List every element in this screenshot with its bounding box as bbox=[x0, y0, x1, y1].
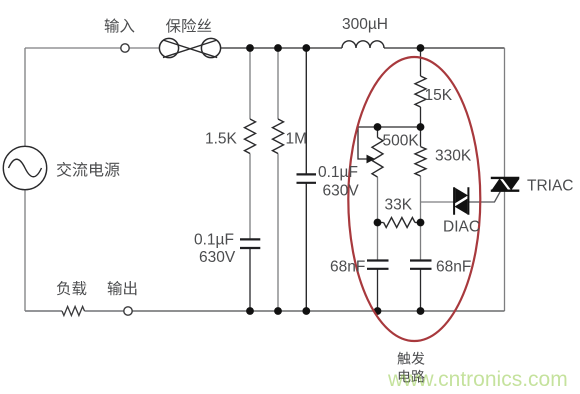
wire 15K to node bbox=[420, 107, 422, 147]
wire 330K down to 68nF bbox=[420, 176, 422, 260]
label 输入 bbox=[105, 18, 135, 32]
wire line B upper bbox=[277, 48, 279, 119]
junction dot bottom A bbox=[246, 307, 254, 315]
junction dot bottom E bbox=[417, 307, 425, 315]
DIAC D1 bbox=[454, 187, 468, 214]
label 触发 bbox=[397, 352, 424, 365]
potentiometer VR1 500K bbox=[372, 137, 383, 177]
wire line A lower bbox=[249, 248, 251, 311]
terminal 输入 bbox=[121, 44, 129, 52]
junction dot bottom C bbox=[302, 307, 310, 315]
label 电路 bbox=[399, 370, 425, 383]
junction dot top E bbox=[417, 44, 425, 52]
label 输出 bbox=[108, 281, 137, 295]
svg-text:www.cntronics.com: www.cntronics.com bbox=[387, 368, 568, 391]
wire line C upper bbox=[305, 48, 307, 174]
svg-text:500K: 500K bbox=[383, 133, 420, 150]
trigger circuit ellipse bbox=[348, 57, 480, 341]
wire top rail left segment bbox=[25, 47, 121, 49]
junction dot node D-127 bbox=[374, 123, 382, 131]
svg-text:68nF: 68nF bbox=[436, 259, 471, 276]
wire terminal to fuse bbox=[129, 47, 160, 49]
wire to DIAC bbox=[421, 201, 454, 203]
wire line B lower bbox=[277, 154, 279, 312]
resistor R4 330K bbox=[415, 147, 426, 176]
svg-text:68nF: 68nF bbox=[330, 259, 365, 276]
svg-text:630V: 630V bbox=[323, 183, 360, 200]
resistor R1 1.5K bbox=[245, 119, 256, 154]
junction dot top B bbox=[274, 44, 282, 52]
wire load to left corner bbox=[25, 310, 62, 312]
resistor R5 33K bbox=[384, 218, 415, 228]
wire line C lower bbox=[305, 183, 307, 311]
svg-text:630V: 630V bbox=[199, 249, 236, 266]
resistor R3 15K bbox=[415, 76, 426, 107]
capacitor C1 0.1uF 630V line A bbox=[240, 239, 260, 248]
svg-text:0.1µF: 0.1µF bbox=[194, 232, 234, 249]
svg-text:300µH: 300µH bbox=[342, 16, 388, 33]
resistor R2 1M bbox=[273, 119, 284, 154]
fuse F1 circles bbox=[159, 38, 178, 57]
AC source circle bbox=[3, 146, 46, 189]
wire line D pot to 68nF bbox=[377, 177, 379, 260]
svg-text:DIAC: DIAC bbox=[443, 219, 480, 236]
wire node row y127 bbox=[378, 126, 421, 128]
wire DIAC to TRIAC gate bbox=[469, 192, 501, 203]
wire line E top to 15K bbox=[420, 48, 422, 76]
wire right rail upper bbox=[504, 48, 506, 177]
junction dot node E-127 bbox=[417, 123, 425, 131]
capacitor C2 0.1uF 630V line C bbox=[297, 174, 317, 182]
resistor load 负载 bbox=[62, 307, 85, 316]
junction dot bottom B bbox=[274, 307, 282, 315]
wire left rail upper bbox=[24, 48, 26, 146]
junction dot top A bbox=[246, 44, 254, 52]
wire bottom rail right segment bbox=[132, 310, 505, 312]
wire output terminal to load bbox=[85, 310, 125, 312]
label 保险丝 bbox=[166, 18, 211, 32]
junction dot 33K left bbox=[374, 219, 382, 227]
svg-text:1M: 1M bbox=[286, 131, 308, 148]
wire inductor to top-right corner bbox=[384, 47, 505, 49]
node line A upper bbox=[249, 48, 251, 119]
label 负载 bbox=[57, 281, 87, 295]
wire 33K left lead bbox=[378, 222, 384, 224]
svg-text:TRIAC: TRIAC bbox=[527, 178, 574, 195]
wire right rail lower bbox=[504, 192, 506, 312]
wire left rail lower bbox=[24, 190, 26, 311]
wire pot wiper bbox=[358, 127, 378, 159]
TRIAC Q1 bbox=[491, 178, 520, 191]
wire 68nF to bottom rail bbox=[420, 269, 422, 311]
terminal 输出 bbox=[124, 307, 132, 315]
junction dot 33K right bbox=[417, 219, 425, 227]
wire fuse to inductor bbox=[221, 47, 343, 49]
wire 33K right lead bbox=[415, 222, 421, 224]
wire line A middle bbox=[249, 154, 251, 240]
capacitor C4 68nF right bbox=[410, 261, 432, 269]
svg-text:1.5K: 1.5K bbox=[205, 131, 238, 148]
junction dot top C bbox=[302, 44, 310, 52]
AC source sine wave bbox=[9, 159, 42, 177]
svg-text:330K: 330K bbox=[435, 148, 472, 165]
arrowhead pot wiper bbox=[367, 155, 376, 164]
fuse F1 cross lines bbox=[163, 40, 217, 58]
svg-text:15K: 15K bbox=[425, 87, 453, 104]
svg-text:33K: 33K bbox=[385, 197, 413, 214]
svg-text:0.1µF: 0.1µF bbox=[318, 164, 358, 181]
inductor L1 300uH bbox=[342, 41, 384, 48]
capacitor C3 68nF left bbox=[367, 261, 389, 269]
label 交流电源 bbox=[57, 162, 120, 177]
wire line D 68nF to bottom rail bbox=[377, 269, 379, 311]
wire line D pot top lead bbox=[377, 127, 379, 137]
junction dot bottom D bbox=[374, 307, 382, 315]
